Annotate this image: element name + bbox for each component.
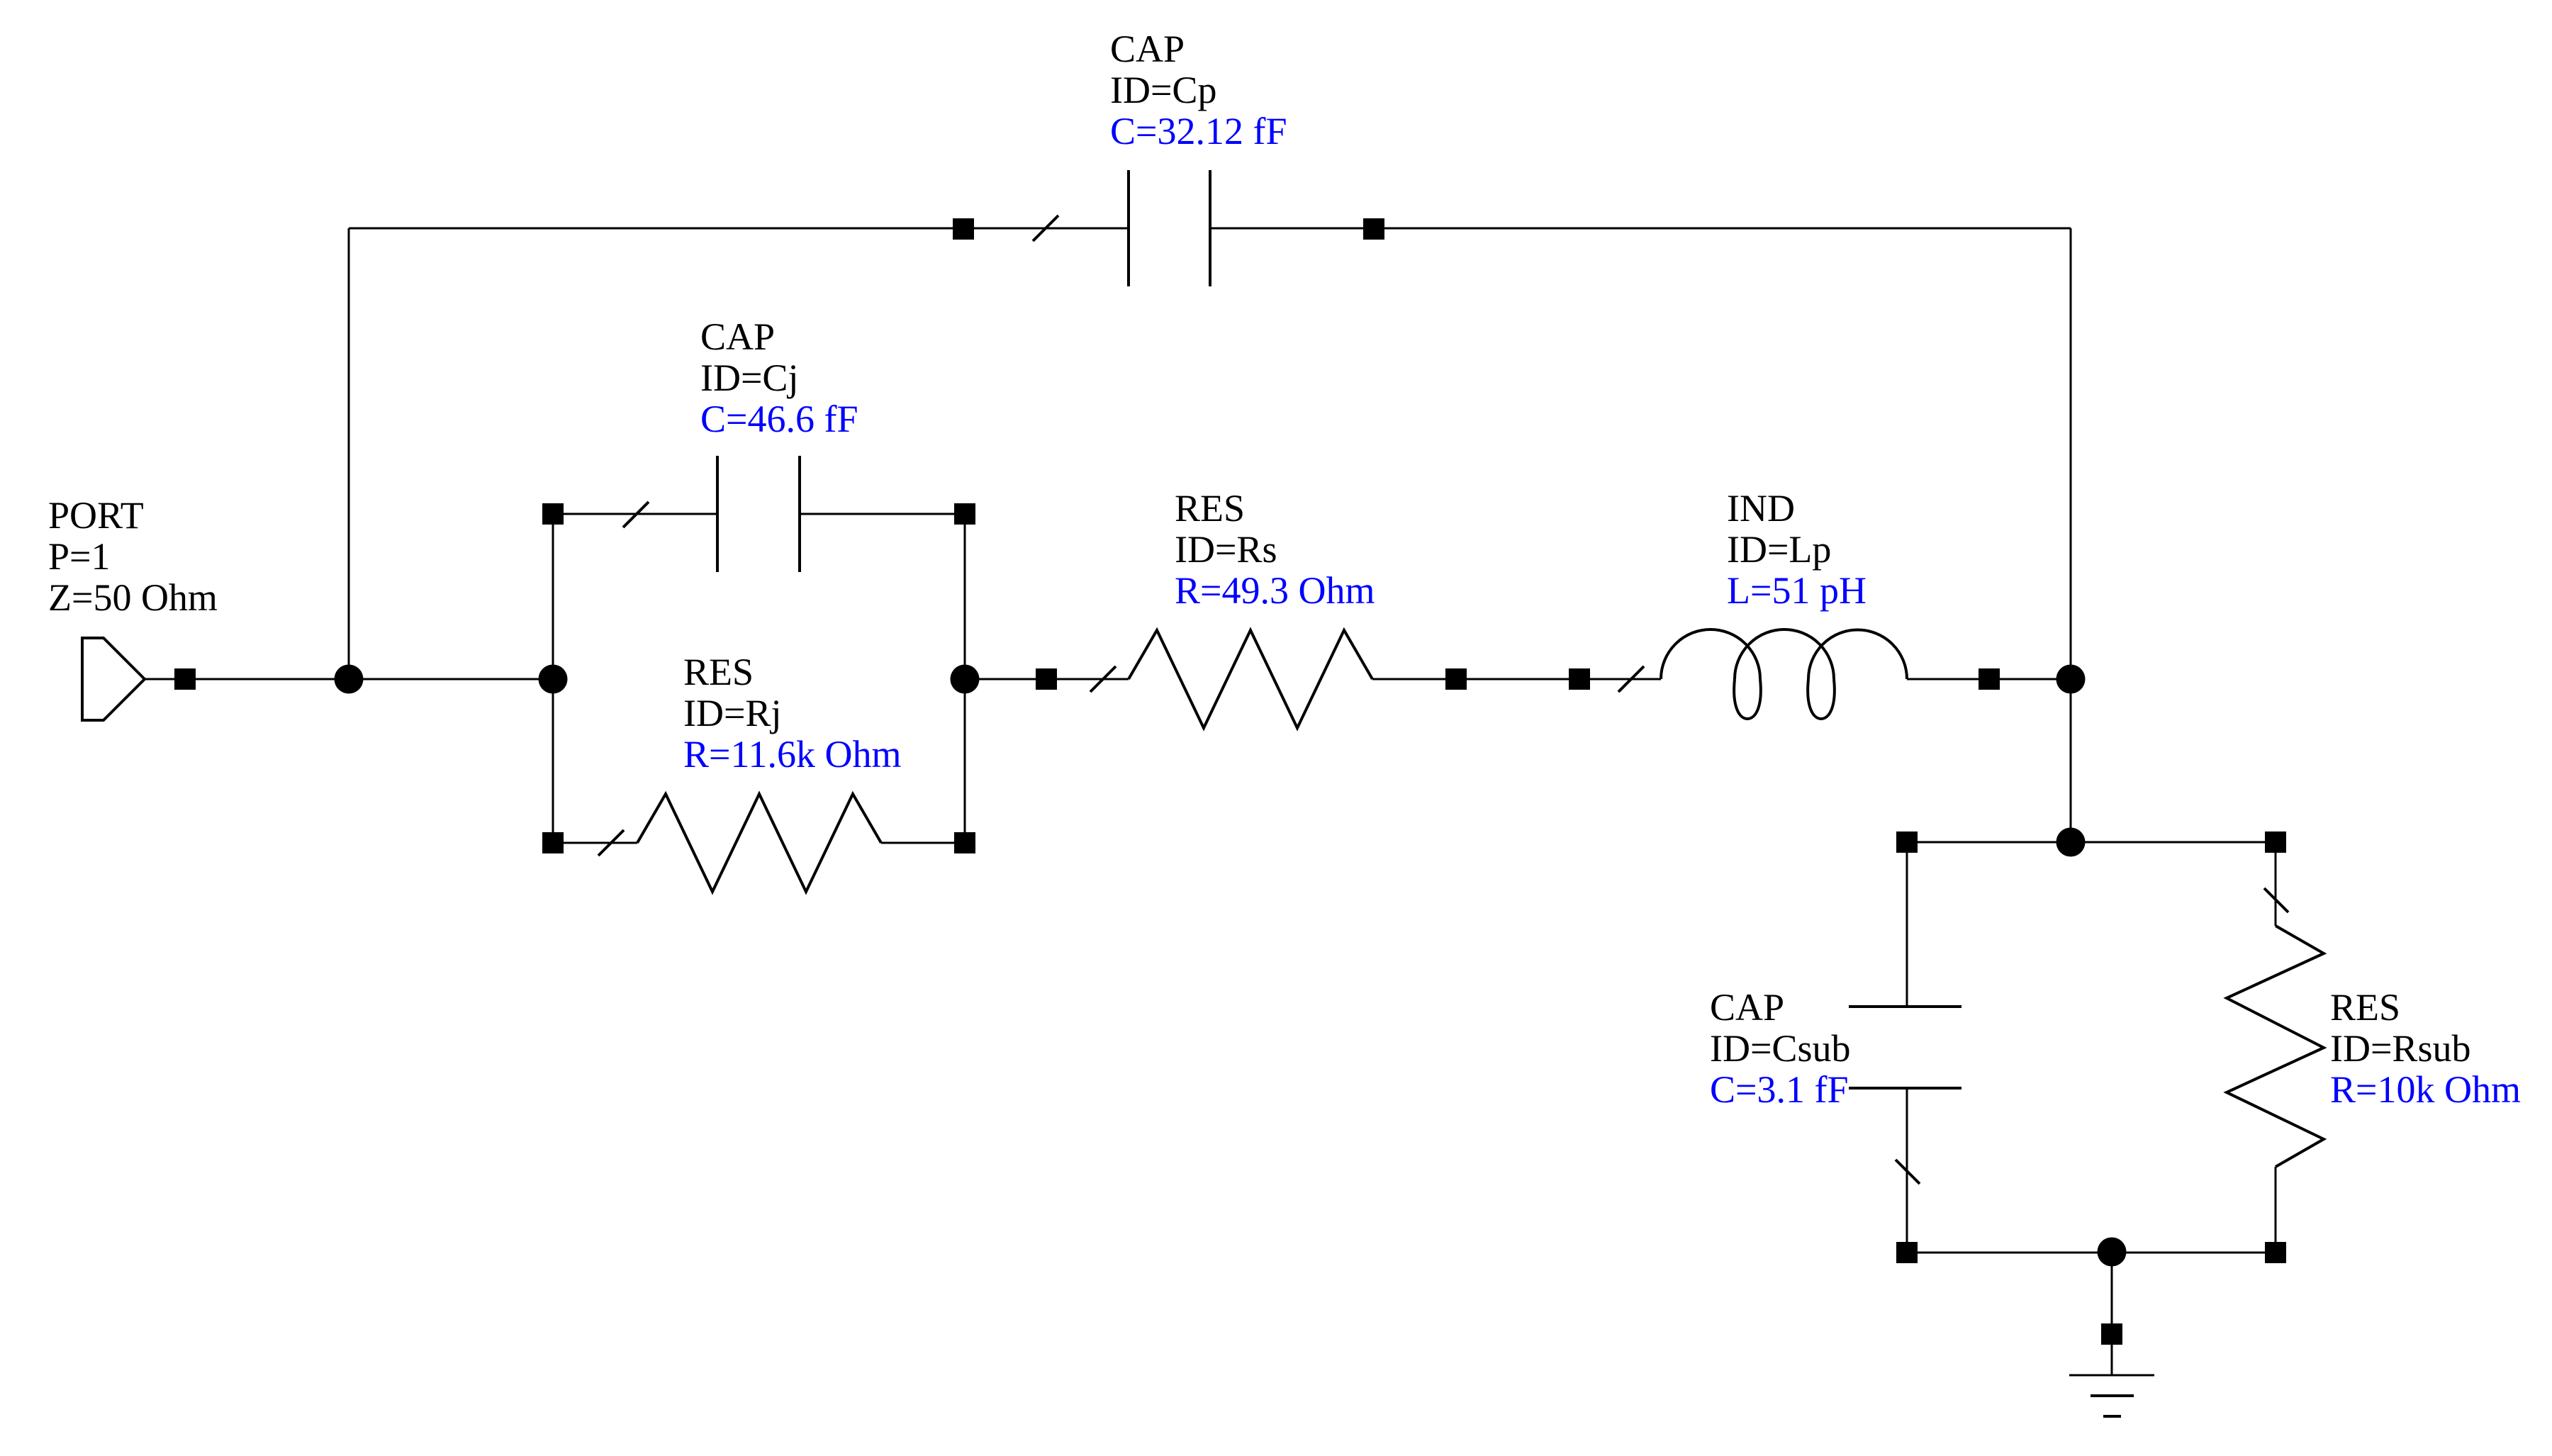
svg-text:C=3.1 fF: C=3.1 fF: [1710, 1068, 1849, 1111]
capacitor Cj label: [700, 315, 858, 440]
svg-text:RES: RES: [2330, 986, 2400, 1029]
svg-text:CAP: CAP: [700, 315, 775, 358]
capacitor Cp: [1129, 170, 1210, 286]
ground pin square: [2101, 1323, 2122, 1345]
wire Rs to Lp: [1372, 678, 1661, 681]
node B: [539, 665, 568, 694]
wire top rail right of Cp: [1210, 228, 2071, 230]
port pin square: [174, 668, 196, 690]
svg-text:ID=Cj: ID=Cj: [700, 357, 798, 399]
inductor Lp pin squares: [1569, 668, 2000, 690]
svg-text:IND: IND: [1727, 487, 1795, 530]
inductor Lp: [1661, 629, 1907, 719]
node A: [335, 665, 364, 694]
svg-text:ID=Rs: ID=Rs: [1175, 528, 1277, 571]
resistor Rs pin squares: [1036, 668, 1467, 690]
resistor Rs: [1129, 630, 1372, 728]
capacitor Csub pin squares: [1896, 831, 1918, 1263]
wire left vertical riser: [348, 228, 350, 679]
svg-text:ID=Csub: ID=Csub: [1710, 1027, 1850, 1070]
capacitor Cj slash: [623, 502, 649, 527]
wire sub-network bottom rail: [1907, 1252, 2276, 1254]
wire node D to node E: [2070, 679, 2072, 842]
capacitor Cj pin squares: [542, 503, 975, 525]
wire Cj top branch right: [800, 513, 965, 515]
svg-text:ID=Rj: ID=Rj: [683, 692, 781, 734]
capacitor Cp slash: [1033, 215, 1058, 241]
svg-text:C=32.12 fF: C=32.12 fF: [1110, 110, 1287, 152]
port P1 label: [48, 494, 218, 619]
node C: [951, 665, 980, 694]
capacitor Csub slash: [1896, 1160, 1920, 1184]
wire Cj top branch left: [553, 513, 717, 515]
svg-text:P=1: P=1: [48, 535, 111, 578]
port P1: [82, 638, 145, 720]
resistor Rj label: [683, 651, 901, 775]
svg-text:PORT: PORT: [48, 494, 144, 537]
wire ground stem: [2111, 1253, 2113, 1375]
svg-text:R=10k Ohm: R=10k Ohm: [2330, 1068, 2521, 1111]
wire Lp to node D: [1907, 678, 2071, 681]
resistor Rj pin squares: [542, 832, 975, 853]
capacitor Csub: [1906, 842, 1908, 1007]
resistor Rsub pin squares: [2265, 831, 2286, 1263]
inductor Lp label: [1727, 487, 1867, 612]
resistor Rsub label: [2330, 986, 2521, 1111]
svg-text:ID=Lp: ID=Lp: [1727, 528, 1831, 571]
svg-text:ID=Cp: ID=Cp: [1110, 69, 1216, 111]
svg-text:RES: RES: [1175, 487, 1245, 530]
wire node C to Rs: [965, 678, 1129, 681]
svg-text:L=51 pH: L=51 pH: [1727, 569, 1867, 612]
node E: [2056, 828, 2086, 857]
resistor Rsub slash: [2264, 888, 2288, 912]
wire top rail left of Cp: [349, 228, 1129, 230]
resistor Rs label: [1175, 487, 1375, 612]
capacitor Cp pin squares: [953, 218, 1384, 240]
capacitor Cj: [717, 456, 800, 572]
svg-text:R=49.3 Ohm: R=49.3 Ohm: [1175, 569, 1375, 612]
svg-text:CAP: CAP: [1710, 986, 1784, 1029]
resistor Rj slash: [598, 830, 624, 856]
svg-text:ID=Rsub: ID=Rsub: [2330, 1027, 2470, 1070]
capacitor Cp label: [1110, 28, 1287, 152]
wire left parallel vertical: [552, 514, 554, 843]
resistor Rj: [553, 842, 637, 844]
svg-text:Z=50 Ohm: Z=50 Ohm: [48, 576, 218, 619]
resistor Rs slash: [1090, 666, 1116, 692]
capacitor Csub label: [1710, 986, 1850, 1111]
ground: [2069, 1375, 2154, 1416]
node F: [2098, 1238, 2127, 1267]
svg-text:R=11.6k Ohm: R=11.6k Ohm: [683, 733, 901, 775]
resistor Rsub: [2275, 842, 2277, 926]
svg-text:RES: RES: [683, 651, 754, 693]
wire port to node B: [145, 678, 553, 681]
wire right parallel vertical: [964, 514, 966, 843]
wire right vertical riser: [2070, 228, 2072, 679]
svg-text:C=46.6 fF: C=46.6 fF: [700, 398, 858, 440]
wire sub-network top rail: [1907, 841, 2276, 844]
inductor Lp slash: [1618, 666, 1644, 692]
svg-text:CAP: CAP: [1110, 28, 1185, 70]
node D: [2056, 665, 2086, 694]
